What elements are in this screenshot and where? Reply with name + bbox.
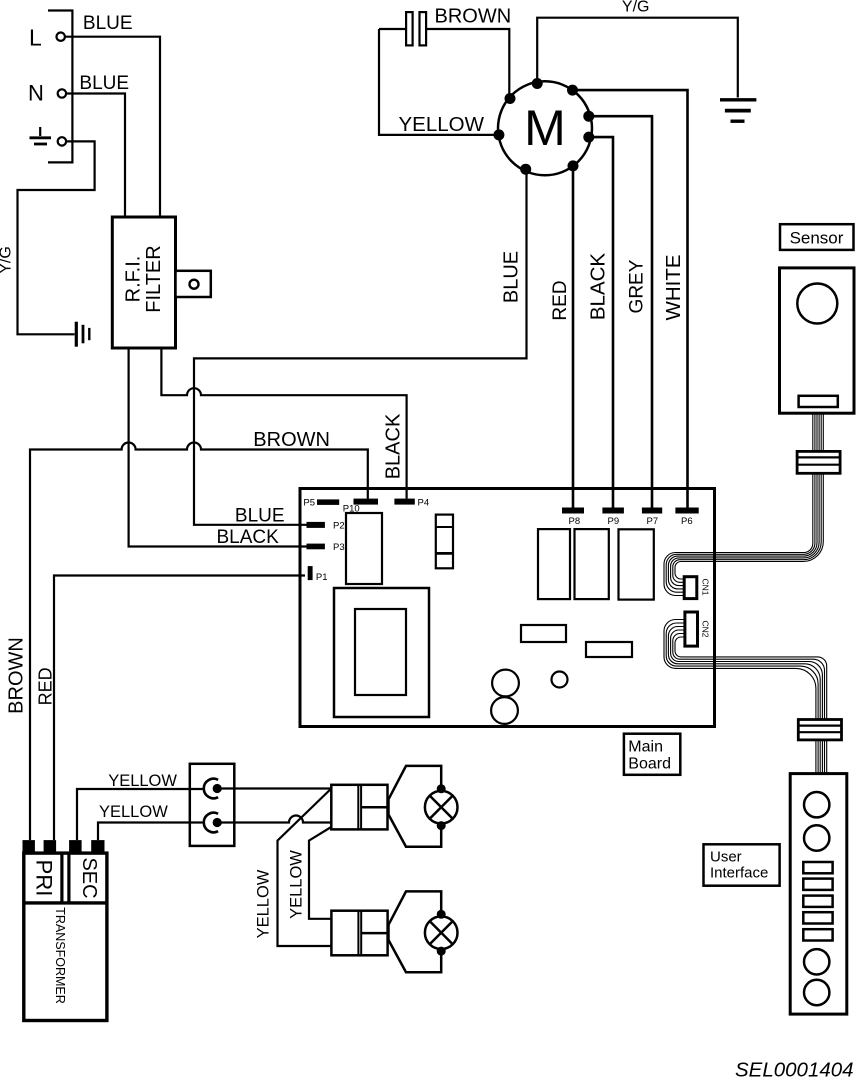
svg-text:Y/G: Y/G [0,246,15,274]
svg-text:BLUE: BLUE [79,73,129,94]
svg-text:P9: P9 [608,516,620,527]
svg-text:CN1: CN1 [700,578,710,595]
svg-text:Sensor: Sensor [790,229,844,248]
svg-text:L: L [29,25,42,51]
svg-text:Board: Board [628,756,671,773]
svg-text:YELLOW: YELLOW [108,772,177,790]
svg-text:P2: P2 [333,521,345,532]
svg-text:BLUE: BLUE [235,506,285,527]
svg-text:BLACK: BLACK [382,413,404,479]
svg-text:Interface: Interface [710,865,768,882]
svg-text:P4: P4 [418,498,430,509]
svg-text:N: N [28,81,44,106]
svg-text:SEL0001404: SEL0001404 [735,1059,854,1082]
svg-text:YELLOW: YELLOW [399,113,485,136]
svg-text:P10: P10 [343,504,360,515]
svg-text:RED: RED [550,280,571,320]
svg-text:FILTER: FILTER [143,245,165,312]
svg-text:YELLOW: YELLOW [99,803,168,821]
svg-text:CN2: CN2 [701,620,711,637]
svg-text:User: User [710,849,742,866]
svg-text:YELLOW: YELLOW [288,850,306,919]
svg-text:BROWN: BROWN [5,637,27,714]
svg-text:P3: P3 [333,542,345,553]
svg-text:PRI: PRI [32,860,57,897]
svg-text:P6: P6 [681,516,693,527]
svg-text:Main: Main [628,739,663,756]
svg-text:M: M [524,100,566,156]
svg-text:P5: P5 [303,498,315,509]
svg-text:RED: RED [35,667,55,705]
svg-text:BROWN: BROWN [253,429,330,451]
svg-text:BLUE: BLUE [83,13,133,34]
svg-text:P1: P1 [316,572,328,583]
svg-text:P7: P7 [647,516,659,527]
svg-text:YELLOW: YELLOW [254,869,272,938]
svg-text:WHITE: WHITE [662,254,685,320]
svg-text:R.F.I.: R.F.I. [123,256,145,303]
svg-text:SEC: SEC [78,857,100,898]
svg-text:GREY: GREY [627,259,648,313]
svg-text:BLUE: BLUE [501,251,523,303]
svg-text:BLACK: BLACK [587,253,610,321]
svg-text:P8: P8 [569,516,581,527]
svg-text:Y/G: Y/G [622,0,650,16]
svg-text:BLACK: BLACK [217,527,280,548]
svg-text:TRANSFORMER: TRANSFORMER [53,907,67,1004]
svg-text:BROWN: BROWN [435,5,512,27]
